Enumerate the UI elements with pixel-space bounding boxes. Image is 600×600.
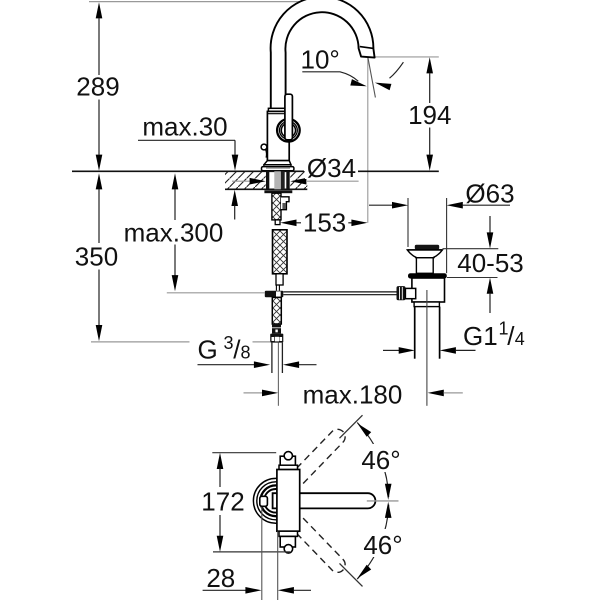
bearing rings (top view): [253, 478, 298, 523]
wire: countertop top surface line: [72, 170, 304, 172]
wire: rod extension line (gray) for max.300: [167, 292, 265, 294]
dim 172 vertical line: [217, 453, 224, 469]
flexible supply hose (braided): [273, 230, 288, 274]
hose ferrule: [272, 324, 281, 327]
dim 194 vertical line: [426, 57, 433, 73]
pop-up rod knob on faucet left: [261, 144, 267, 150]
dim 40-53 extension lines and arrows: [443, 248, 499, 250]
svg-text:153: 153: [303, 208, 346, 238]
drain flange: [407, 250, 442, 258]
faucet base plate: [262, 167, 294, 171]
wire: 350 bottom reference line: [91, 341, 190, 343]
lower hose segment: [272, 297, 281, 324]
wire: 172 extension lines: [212, 452, 276, 454]
dim max.180 arrows: [244, 392, 263, 394]
dashed swivel position -46deg: [284, 510, 345, 572]
wire: 10 degree tilted line: [368, 58, 376, 98]
dim max.300 vertical line: [172, 173, 179, 189]
svg-text:172: 172: [201, 487, 244, 517]
dim max.30 leader line: [138, 139, 235, 141]
faucet threaded shank through countertop: [266, 171, 269, 189]
drain neck: [416, 258, 433, 274]
G3/8 connector nut: [270, 334, 283, 343]
label 46deg upper: [359, 444, 404, 472]
dim diameter 63 arrows: [369, 204, 392, 206]
G3/8 threaded end: [271, 343, 273, 373]
svg-text:46°: 46°: [361, 445, 400, 475]
dim 289 vertical line: [96, 2, 103, 18]
drain body: [412, 278, 445, 302]
handle pivot rings: [277, 119, 300, 142]
dashed swivel position +46deg: [284, 429, 345, 491]
svg-text:max.300: max.300: [124, 218, 224, 248]
faucet body collar: [268, 108, 286, 111]
svg-text:3: 3: [224, 333, 234, 353]
vertical pop-up rod segment: [275, 285, 277, 291]
svg-text:46°: 46°: [363, 530, 402, 560]
dim 46deg upper arc: [357, 423, 389, 497]
spout (top view, solid pill): [273, 493, 376, 508]
wire: top reference line (spout max height): [89, 1, 312, 3]
wire: vertical extension lines for 28: [261, 507, 263, 600]
mounting nut below counter: [264, 190, 292, 193]
countertop cross-section hatching: [225, 171, 266, 189]
svg-text:289: 289: [76, 72, 119, 102]
svg-text:max.30: max.30: [142, 112, 227, 142]
faucet gooseneck spout: [271, 0, 375, 112]
wire: diameter 63 right extension line: [446, 198, 448, 273]
faucet body (top view): [280, 456, 295, 466]
svg-text:max.180: max.180: [303, 380, 403, 410]
svg-text:G: G: [198, 335, 218, 365]
svg-text:Ø34: Ø34: [307, 153, 356, 183]
wire: drain center line: [426, 290, 428, 406]
drain tailpipe: [414, 307, 416, 359]
wire: countertop bottom line: [225, 188, 307, 190]
anti-rotation tab: [260, 496, 268, 506]
svg-text:350: 350: [75, 242, 118, 272]
wire: diameter 63 left extension line: [407, 198, 409, 247]
dim 10deg leader: [302, 72, 358, 82]
drain plug cap (dark): [415, 245, 439, 250]
label 46deg lower: [360, 529, 405, 557]
hose lower stub: [276, 274, 283, 285]
wire: 46deg axis extension lower: [340, 563, 363, 586]
dim 28 arrows: [203, 589, 246, 591]
svg-text:4: 4: [515, 329, 525, 349]
dim 350 vertical line: [96, 173, 103, 189]
svg-text:8: 8: [241, 343, 251, 363]
knurled knob on drain: [397, 286, 406, 300]
dim G3/8 arrows: [198, 364, 255, 366]
dim 46deg lower arc: [357, 505, 389, 579]
pop-up rod coupling: [265, 291, 284, 298]
drain joint band: [414, 302, 439, 307]
wire: spout outlet height extension line: [375, 56, 439, 58]
faucet base flare: [264, 161, 291, 165]
handle lever bar: [285, 94, 293, 140]
wire: 46deg axis extension upper: [340, 415, 363, 438]
svg-text:194: 194: [408, 100, 451, 130]
svg-text:28: 28: [206, 563, 235, 593]
wire: vertical line from spout outlet down to 153 dim: [367, 58, 369, 223]
hose stub: [275, 220, 280, 225]
svg-text:10°: 10°: [301, 44, 340, 74]
drain seal ring (black): [408, 273, 447, 278]
dim diameter 34 arrows: [232, 180, 250, 182]
label diameter 34: [305, 158, 358, 179]
horizontal pop-up rod to drain: [283, 291, 396, 293]
svg-text:40-53: 40-53: [457, 248, 524, 278]
svg-text:Ø63: Ø63: [465, 178, 514, 208]
faucet body: [267, 111, 289, 160]
wire: spout center line (top view): [367, 500, 399, 502]
svg-text:G1: G1: [463, 321, 498, 351]
dim G1 1/4 arrows: [383, 349, 399, 351]
dim 153 arrows: [280, 220, 296, 227]
spout aerator band line: [360, 47, 374, 49]
knob stem: [405, 288, 415, 298]
pop-up rod bracket: [281, 197, 289, 210]
threaded rod with cross hatch: [272, 193, 281, 220]
wire: hose axis extension down to max.180: [277, 343, 279, 406]
